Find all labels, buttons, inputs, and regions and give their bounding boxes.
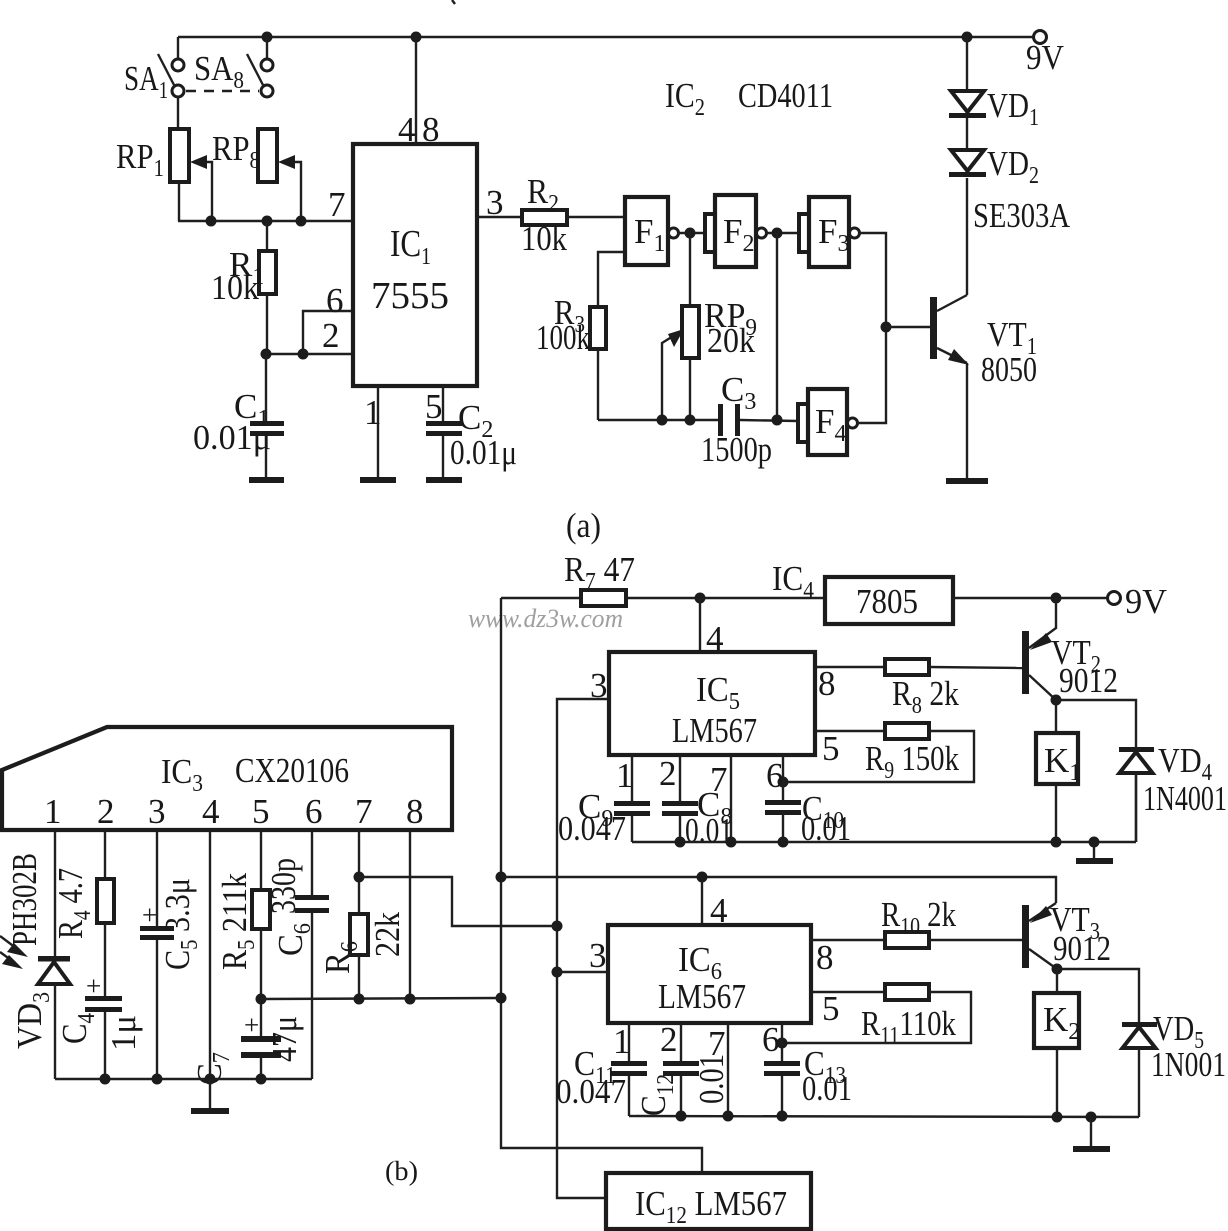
junction IC6 pin4 — [697, 872, 708, 883]
svg-text:0.01: 0.01 — [685, 811, 733, 850]
svg-text:6: 6 — [766, 756, 784, 795]
relay K1 — [1036, 700, 1081, 842]
wire 9V top rail — [178, 36, 1034, 38]
wire 5V rail left segment — [501, 597, 581, 599]
svg-text:R6: R6 — [318, 941, 363, 974]
svg-text:SE303A: SE303A — [973, 196, 1071, 235]
wire IC6 pin5 — [811, 989, 885, 1028]
terminal 9V (b) — [1108, 582, 1168, 621]
label (a) — [566, 506, 601, 545]
svg-text:(b): (b) — [385, 1156, 418, 1186]
junction pin7 link — [354, 872, 365, 883]
svg-text:7: 7 — [328, 185, 346, 224]
junction RP8 wiper — [296, 216, 307, 227]
junction C12 gnd row — [676, 1111, 687, 1122]
svg-text:3: 3 — [589, 936, 607, 975]
svg-text:1N4001: 1N4001 — [1143, 779, 1227, 818]
wire VT1 collector to VD2 — [966, 178, 968, 295]
junction IC5 pin4 rail — [695, 593, 706, 604]
capacitor C2 0.01u on pin 5 — [425, 386, 517, 477]
junction pin3 net at link — [552, 921, 563, 932]
svg-text:PH302B: PH302B — [5, 853, 44, 946]
gate F4 — [798, 389, 858, 455]
watermark — [468, 604, 623, 633]
junction RP9 wiper bottom — [657, 415, 668, 426]
wire base node to VT1 — [886, 326, 930, 328]
svg-text:9V: 9V — [1125, 582, 1167, 621]
gate F3 — [799, 197, 860, 267]
resistor R2 10k — [521, 172, 567, 258]
resistor R9 150k — [865, 723, 959, 784]
svg-text:R5 211k: R5 211k — [215, 873, 260, 970]
switch SA1 — [124, 54, 184, 104]
svg-text:R10 2k: R10 2k — [881, 895, 956, 940]
svg-text:5: 5 — [822, 729, 840, 768]
wire pin7 link to pin3 net — [359, 877, 557, 926]
ground K2 — [1073, 1117, 1110, 1152]
transistor VT3 9012 — [1022, 900, 1111, 969]
svg-text:R2: R2 — [527, 172, 559, 217]
ground IC1 pin 1 — [360, 477, 396, 483]
svg-text:0.01μ: 0.01μ — [193, 418, 271, 457]
svg-text:+: + — [244, 1010, 259, 1040]
wire R11 return to pin6 — [782, 992, 971, 1043]
wire IC1 pin 1 to ground — [364, 386, 382, 477]
capacitor C3 1500p — [701, 370, 798, 469]
IC IC12 LM567 — [606, 1173, 811, 1229]
junction VT3 collector — [1052, 964, 1063, 975]
svg-text:9012: 9012 — [1053, 929, 1111, 968]
svg-text:1500p: 1500p — [701, 430, 772, 469]
ground VT1 — [946, 478, 988, 484]
svg-text:C3: C3 — [721, 370, 756, 415]
capacitor C7 47u — [190, 1010, 304, 1085]
wire IC5 pin7 — [710, 755, 731, 842]
IC IC1 7555 — [353, 144, 477, 386]
ground K1 — [1076, 842, 1113, 864]
svg-text:CD4011: CD4011 — [738, 76, 833, 115]
junction R6 Vcc row — [354, 994, 365, 1005]
svg-text:R9 150k: R9 150k — [865, 739, 959, 784]
svg-text:8: 8 — [406, 792, 424, 831]
svg-text:8: 8 — [818, 664, 836, 703]
svg-text:2: 2 — [97, 792, 115, 831]
switch SA8 — [194, 49, 273, 97]
photodiode VD3 PH302B — [0, 830, 70, 1079]
junction C13 gnd row — [777, 1111, 788, 1122]
capacitor C4 1u — [55, 971, 143, 1079]
transistor VT2 9012 — [1022, 598, 1118, 700]
svg-text:100k: 100k — [536, 318, 590, 357]
svg-text:0.01μ: 0.01μ — [450, 433, 517, 472]
svg-text:C12: C12 — [634, 1074, 679, 1116]
wire SA1 to RP1 — [177, 97, 179, 129]
junction F1 output — [685, 228, 696, 239]
wire IC6 pin3 — [557, 936, 608, 975]
wire R2 to F1 — [567, 216, 625, 218]
wire 7805 to 9V terminal — [953, 597, 1108, 599]
wire power vertical down to IC12 — [501, 598, 702, 1173]
wire F1 out to F2 — [679, 232, 706, 234]
ground C1 — [249, 477, 284, 483]
svg-text:SA8: SA8 — [194, 49, 244, 94]
capacitor C8 0.01 IC5 pin2 — [659, 754, 733, 850]
IC IC6 LM567 — [608, 925, 811, 1023]
svg-text:3: 3 — [148, 792, 166, 831]
junction pin7 gnd row — [726, 837, 737, 848]
capacitor C10 0.01 IC5 pin6 — [765, 755, 851, 848]
svg-text:5: 5 — [822, 989, 840, 1028]
resistor R8 2k — [885, 659, 959, 719]
junction power vert Vcc row — [496, 993, 507, 1004]
wire R7 to 7805 — [626, 597, 825, 599]
wire IC5 pin4 — [700, 598, 724, 658]
wire IC5 ground row — [632, 841, 1136, 843]
svg-text:330p: 330p — [264, 858, 303, 914]
wire IC6 ground row — [629, 1116, 1139, 1117]
svg-text:C6: C6 — [271, 923, 316, 956]
svg-text:10k: 10k — [521, 219, 567, 258]
svg-text:1: 1 — [364, 393, 382, 432]
svg-text:0.047: 0.047 — [558, 809, 626, 848]
junction F2 output — [772, 228, 783, 239]
resistor R7 47 — [564, 550, 635, 606]
junction C4 gnd row — [100, 1074, 111, 1085]
svg-text:IC4: IC4 — [772, 559, 814, 604]
svg-text:4: 4 — [202, 792, 220, 831]
wire rail to SA8 — [266, 37, 268, 59]
capacitor C6 330p pin6 — [264, 830, 329, 1079]
svg-text:R7 47: R7 47 — [564, 550, 635, 595]
wire F2 node down to C3 row — [776, 233, 778, 420]
wire pin4 to gnd row — [209, 830, 211, 1079]
resistor R11 110k — [861, 984, 956, 1049]
diode VD2 — [949, 144, 1071, 235]
junction rail-VD1 — [962, 32, 973, 43]
junction C10 gnd row — [778, 837, 789, 848]
resistor R6 22k pin7 — [318, 830, 407, 999]
junction R11 return pin6 — [777, 1038, 788, 1049]
svg-text:2: 2 — [322, 316, 340, 355]
junction pin6 jog — [298, 349, 309, 360]
junction R1/C1 node — [261, 349, 272, 360]
potentiometer RP9 20k — [662, 233, 757, 420]
capacitor C9 0.047 IC5 pin1 — [558, 755, 650, 848]
wire rail to VD1 — [966, 37, 968, 91]
svg-text:22k: 22k — [368, 912, 407, 957]
svg-text:IC2: IC2 — [665, 76, 705, 121]
junction VT2 emitter rail — [1051, 593, 1062, 604]
wire R9 return to pin6 — [783, 731, 974, 782]
svg-text:7: 7 — [708, 1024, 726, 1063]
IC IC3 CX20106 — [2, 727, 452, 831]
svg-text:1μ: 1μ — [104, 1015, 143, 1051]
capacitor C13 0.01 IC6 pin6 — [762, 1020, 852, 1116]
junction pin3 net at IC6 — [552, 967, 563, 978]
junction rail-SA8 — [262, 32, 273, 43]
svg-text:20k: 20k — [707, 321, 755, 360]
svg-text:1: 1 — [613, 1022, 631, 1061]
svg-text:LM567: LM567 — [658, 977, 746, 1016]
svg-text:7: 7 — [355, 792, 373, 831]
svg-text:7555: 7555 — [371, 275, 449, 317]
junction pin7 gnd row 2 — [723, 1111, 734, 1122]
svg-text:47μ: 47μ — [265, 1016, 304, 1062]
svg-text:+: + — [86, 971, 101, 1001]
svg-text:(a): (a) — [566, 506, 601, 545]
junction pin4 gnd row — [205, 1074, 216, 1085]
wire IC5 pin5 — [815, 729, 885, 768]
resistor R4 4.7 pin2 — [51, 830, 114, 996]
resistor R1 10k — [211, 221, 276, 354]
svg-text:1: 1 — [616, 756, 634, 795]
svg-text:2: 2 — [660, 1020, 678, 1059]
svg-text:VD2: VD2 — [987, 144, 1039, 189]
svg-text:1: 1 — [44, 792, 62, 831]
wire VT1 emitter to ground — [966, 363, 968, 478]
wire VD4 column — [1135, 773, 1137, 842]
junction power vert 5V row — [496, 872, 507, 883]
svg-text:8: 8 — [422, 110, 440, 149]
capacitor C5 3.3u pin3 — [140, 830, 203, 1079]
potentiometer RP8 — [212, 129, 301, 221]
junction C5 gnd row — [152, 1074, 163, 1085]
junction R9 return pin6 — [778, 777, 789, 788]
wire IC1 pin 6 jog — [303, 281, 353, 354]
terminal 9V (a) — [1026, 31, 1064, 78]
wire pin8 down — [409, 830, 411, 999]
svg-text:VD1: VD1 — [987, 86, 1039, 131]
wire F2 out to F3 — [767, 232, 800, 234]
svg-text:9012: 9012 — [1059, 661, 1118, 700]
ground IC3 — [191, 1079, 229, 1114]
junction F3/F4 outputs — [881, 322, 892, 333]
regulator IC4 7805 — [772, 559, 953, 624]
svg-text:RP1: RP1 — [116, 137, 164, 182]
svg-text:6: 6 — [305, 792, 323, 831]
svg-text:1N001: 1N001 — [1151, 1045, 1226, 1084]
svg-text:3: 3 — [486, 183, 504, 222]
svg-text:3: 3 — [590, 666, 608, 705]
dashed gang link SA1-SA8 — [186, 90, 259, 92]
wire IC1 pin 3 — [477, 183, 522, 222]
gate F2 — [705, 195, 767, 267]
svg-text:R4 4.7: R4 4.7 — [51, 868, 96, 939]
capacitor C12 0.01 IC6 pin2 — [634, 1020, 731, 1116]
stray mark top edge — [452, 0, 455, 4]
junction K1 gnd row — [1051, 837, 1062, 848]
svg-text:6: 6 — [326, 281, 344, 320]
junction C7 gnd row — [256, 1074, 267, 1085]
wire RP1 bottom — [178, 182, 180, 221]
svg-text:R8 2k: R8 2k — [892, 674, 959, 719]
wire bottom row R3 to C3 — [598, 419, 718, 421]
resistor R10 2k — [881, 895, 956, 948]
capacitor C11 0.047 IC6 pin1 — [556, 1022, 647, 1116]
wire R10 to VT3 base — [929, 939, 1022, 941]
svg-text:www.dz3w.com: www.dz3w.com — [468, 604, 623, 633]
svg-text:2: 2 — [659, 754, 677, 793]
svg-text:7: 7 — [710, 760, 728, 799]
wire rail to SA1 — [177, 37, 179, 59]
svg-text:C4: C4 — [55, 1013, 100, 1044]
capacitor C1 0.01u — [193, 354, 284, 477]
gate F1 — [625, 197, 679, 265]
diode VD5 1N001 — [1057, 969, 1226, 1117]
IC IC5 LM567 — [609, 652, 815, 755]
svg-text:IC12 LM567: IC12 LM567 — [635, 1184, 787, 1229]
svg-text:8: 8 — [816, 938, 834, 977]
wire R8 to VT2 base — [929, 667, 1022, 668]
ground C2 — [426, 477, 462, 483]
diode VD4 1N4001 — [1056, 700, 1227, 842]
svg-text:4: 4 — [398, 110, 416, 149]
svg-text:9V: 9V — [1026, 38, 1064, 77]
junction RP8 body — [262, 216, 273, 227]
svg-text:5: 5 — [425, 387, 443, 426]
wire IC6 pin8 — [811, 938, 885, 977]
svg-text:7805: 7805 — [856, 582, 918, 621]
svg-text:8050: 8050 — [981, 350, 1037, 389]
svg-text:0.047: 0.047 — [556, 1072, 626, 1111]
junction C3-F2 branch — [772, 415, 783, 426]
wire F3 out to base node — [860, 233, 887, 327]
wire 5V row to VT3 emitter — [501, 877, 1056, 903]
svg-text:6: 6 — [762, 1020, 780, 1059]
svg-text:+: + — [142, 900, 157, 930]
wire IC5 pin3 net vertical — [557, 666, 609, 1198]
wire IC5 pin8 — [815, 664, 885, 703]
junction K2 gnd row — [1052, 1112, 1063, 1123]
wire IC1 pins 4,8 to rail — [398, 37, 440, 149]
wire Vcc row — [261, 998, 501, 999]
wire IC1 pin 2 — [266, 316, 353, 355]
wire node row to IC1 pin 7 — [178, 185, 353, 224]
resistor R5 211k pin5 — [215, 830, 270, 1036]
wire IC3 ground row — [55, 1078, 312, 1080]
resistor R3 100k — [536, 252, 625, 420]
relay K2 — [1034, 969, 1080, 1117]
svg-text:C5 3.3μ: C5 3.3μ — [158, 878, 203, 970]
diode VD1 — [949, 86, 1039, 150]
svg-text:CX20106: CX20106 — [235, 751, 349, 790]
junction pin8 Vcc row — [405, 994, 416, 1005]
junction VT2 collector — [1051, 695, 1062, 706]
svg-text:0.01: 0.01 — [802, 1069, 852, 1108]
transistor VT1 8050 — [930, 295, 1037, 389]
svg-text:SA1: SA1 — [124, 59, 168, 104]
svg-text:VD3: VD3 — [10, 992, 55, 1049]
svg-text:RP8: RP8 — [212, 129, 260, 174]
label IC2 CD4011 — [665, 76, 833, 121]
junction gnd stub K1 — [1089, 837, 1100, 848]
potentiometer RP1 — [116, 129, 212, 221]
label (b) — [385, 1156, 418, 1186]
wire IC6 pin7 — [708, 1023, 728, 1116]
junction gnd stub K2 — [1086, 1112, 1097, 1123]
junction RP9 body bottom — [685, 415, 696, 426]
wire IC6 pin4 — [702, 877, 728, 930]
svg-text:5: 5 — [252, 792, 270, 831]
junction C8 gnd row — [675, 837, 686, 848]
svg-text:10k: 10k — [211, 268, 259, 307]
wire F4 out to base node — [858, 327, 887, 423]
junction pin5 Vcc row — [256, 994, 267, 1005]
junction rail-IC1 — [411, 32, 422, 43]
svg-text:LM567: LM567 — [672, 711, 757, 750]
junction RP1 wiper — [206, 216, 217, 227]
